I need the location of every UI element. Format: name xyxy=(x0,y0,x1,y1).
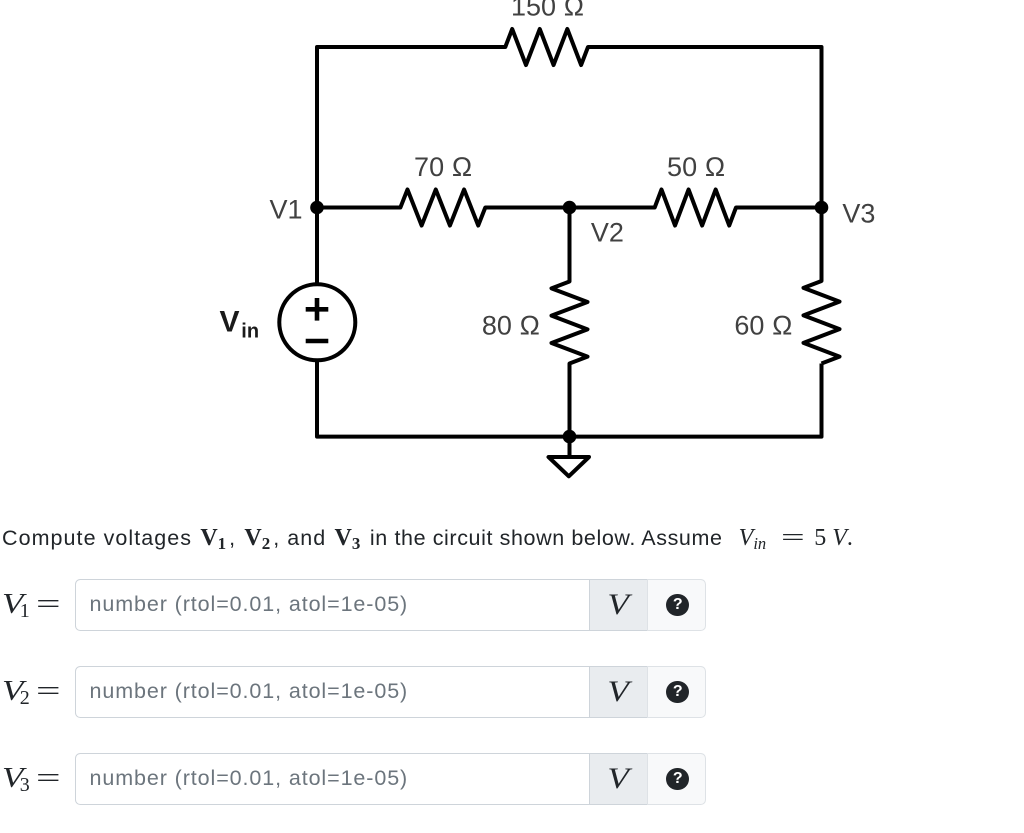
svg-text:V: V xyxy=(220,306,240,339)
svg-text:150 Ω: 150 Ω xyxy=(511,0,584,22)
svg-text:60 Ω: 60 Ω xyxy=(734,311,792,341)
svg-text:V3: V3 xyxy=(842,199,875,229)
svg-text:V1: V1 xyxy=(269,195,302,225)
svg-text:80 Ω: 80 Ω xyxy=(482,311,540,341)
svg-text:V2: V2 xyxy=(591,218,624,248)
svg-text:50 Ω: 50 Ω xyxy=(667,152,725,182)
svg-text:70 Ω: 70 Ω xyxy=(414,152,472,182)
svg-text:in: in xyxy=(241,321,259,343)
